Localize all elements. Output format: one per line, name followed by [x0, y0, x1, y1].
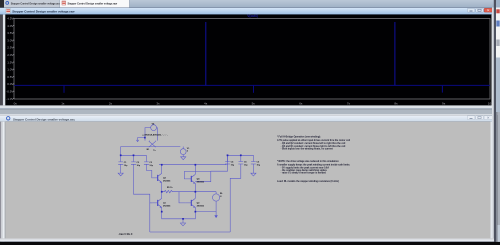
- svg-text:1.0V: 1.0V: [7, 68, 13, 72]
- waveform window bottom border: [0, 105, 494, 108]
- wire rail up to right cap rail: [228, 155, 254, 164]
- motor load RL (circle): [213, 194, 220, 201]
- client area left border lines: [0, 122, 1, 242]
- svg-text:7s: 7s: [347, 101, 351, 105]
- wire left capacitor rail: [121, 154, 147, 156]
- voltage source V1 stub from main net: [182, 147, 184, 149]
- max button: [476, 8, 484, 12]
- ground (main, center bottom): [180, 223, 185, 226]
- capacitor C4 (right group): [225, 155, 230, 164]
- svg-text:8s: 8s: [394, 101, 398, 105]
- wire C5 down around to bottom rail right side: [230, 166, 241, 232]
- Q2 emitter arrow: [193, 206, 195, 208]
- svg-text:Stepper Control Design smaller: Stepper Control Design smaller voltage.a…: [13, 117, 75, 121]
- component labels (tiny): [119, 124, 261, 236]
- tab bar background: [0, 0, 500, 8]
- svg-text:2N3055: 2N3055: [163, 205, 171, 207]
- wire emitter node to motor node: [175, 191, 216, 193]
- min button: [467, 8, 475, 12]
- close button: [484, 8, 492, 12]
- wire C2 to lower-left run to BL base / bottom rail: [134, 166, 150, 232]
- tab 1 icon: [6, 2, 9, 5]
- behavioral source A1 body (crossed box): [149, 141, 156, 147]
- svg-text:4.0V: 4.0V: [7, 24, 13, 28]
- ground under C1: [118, 173, 123, 176]
- wire Q4 emitter down to node: [194, 183, 196, 191]
- wire V5 right lead down to modulator: [156, 128, 159, 141]
- window right border: [492, 8, 495, 110]
- title bar (inactive): [0, 115, 494, 122]
- wire main horizontal net N001: [121, 146, 181, 148]
- behavioral source A1 (X symbol) pin stubs: [150, 140, 156, 143]
- wire Q4 base feedback loop: [184, 171, 210, 181]
- wire motor top to node: [215, 192, 217, 194]
- trace baseline V(out4): [14, 84, 490, 86]
- svg-text:4s: 4s: [204, 101, 208, 105]
- trace dip at 5s: [253, 85, 255, 92]
- tab 1 (schematic, inactive): [4, 0, 60, 8]
- svg-text:0.0V: 0.0V: [7, 82, 13, 86]
- schematic window bottom border: [0, 238, 494, 239]
- svg-text:9s: 9s: [442, 101, 446, 105]
- wire cross-couple down to Q2 base: [179, 192, 186, 203]
- svg-text:.tran 0 10s 0: .tran 0 10s 0: [119, 233, 133, 236]
- capacitor C2: [131, 155, 136, 166]
- svg-text:2N3055: 2N3055: [197, 205, 205, 207]
- svg-text:-0.5V: -0.5V: [6, 89, 13, 93]
- schematic client area: [0, 122, 494, 242]
- trace spike at 4s: [205, 22, 207, 85]
- svg-text:2s: 2s: [109, 101, 113, 105]
- svg-text:3s: 3s: [156, 101, 160, 105]
- junction nodes (dots): [120, 137, 242, 220]
- tab 2 (waveform, active): [60, 0, 130, 8]
- wire C3 to Q3 base: [146, 166, 152, 178]
- svg-text:2.5V: 2.5V: [7, 46, 13, 50]
- wire Q3 emitter down to node: [161, 182, 163, 191]
- motor bottom arrow: [214, 215, 217, 218]
- wire bottom return rail: [150, 231, 230, 233]
- y axis labels: [6, 16, 13, 100]
- transistor base bars (bold): [158, 175, 192, 206]
- svg-text:-1.0V: -1.0V: [6, 97, 13, 101]
- svg-text:0.5V: 0.5V: [7, 75, 13, 79]
- net flag arrow (input net): [136, 138, 145, 142]
- svg-text:2.0V: 2.0V: [7, 53, 13, 57]
- wire Q1 collector up to emitter node: [161, 192, 163, 199]
- plot client area (black): [3, 15, 492, 106]
- dark screen edge left of tabs: [0, 0, 4, 8]
- capacitor C6 (right group): [251, 155, 256, 166]
- wire Q4 collector to rail: [194, 165, 196, 175]
- ground under C6: [251, 166, 256, 176]
- svg-text:1s: 1s: [61, 101, 65, 105]
- title bar icon: [7, 117, 10, 120]
- capacitor C5 (right group): [238, 155, 243, 166]
- min/max/close buttons (inactive): [467, 116, 475, 120]
- ground under V1: [181, 155, 186, 160]
- wire V5 left lead down to modulator: [145, 128, 151, 141]
- svg-text:Stepper Control Design smaller: Stepper Control Design smaller voltage.r…: [12, 10, 75, 14]
- svg-text:Stepper Control Design smaller: Stepper Control Design smaller voltage.a…: [11, 2, 61, 5]
- svg-text:5s: 5s: [252, 101, 256, 105]
- wire Q2 emitter to motor bottom: [195, 211, 216, 213]
- wire stub to Q1 base: [150, 202, 152, 204]
- Q1 emitter arrow: [160, 206, 162, 208]
- title bar (active): [0, 8, 494, 15]
- svg-text:Stepper Control Design smaller: Stepper Control Design smaller voltage.r…: [68, 2, 118, 5]
- tab 2 icon: [62, 1, 66, 5]
- wire motor bottom lead: [215, 201, 217, 215]
- trace dip at 1s: [63, 85, 65, 92]
- Q3 emitter arrow: [160, 181, 162, 183]
- transistor Q1 (bottom-left NPN): [152, 198, 162, 207]
- trace dip at 9s: [441, 85, 443, 92]
- client area right border lines: [491, 122, 493, 242]
- Q4 emitter arrow: [193, 182, 195, 184]
- title bar icon: [6, 9, 10, 13]
- y tick dashes: [13, 18, 14, 99]
- svg-text:V(out4): V(out4): [247, 14, 257, 18]
- x axis labels: [14, 101, 494, 105]
- wire Q3 collector to rail: [161, 165, 163, 174]
- svg-text:3.0V: 3.0V: [7, 38, 13, 42]
- wire Q2 emitter down: [194, 207, 196, 211]
- wire left drop to cap rail: [120, 147, 122, 156]
- wire H-bridge top rail: [159, 164, 227, 166]
- window left border: [0, 8, 1, 110]
- resistor R5 (zigzag between emitter nodes): [162, 190, 175, 192]
- transistor Q4 (top-right NPN): [186, 174, 196, 183]
- svg-text:R5 1k: R5 1k: [167, 187, 173, 189]
- svg-text:2N3055: 2N3055: [197, 181, 205, 183]
- transistor Q3 (top-left NPN): [152, 173, 162, 182]
- svg-text:0s: 0s: [14, 101, 18, 105]
- capacitor C1: [118, 155, 123, 173]
- window top border: [0, 113, 494, 116]
- svg-text:3.5V: 3.5V: [7, 31, 13, 35]
- wire inner emitter rail: [162, 212, 196, 219]
- wire ground stem: [182, 219, 184, 223]
- svg-text:6s: 6s: [299, 101, 303, 105]
- svg-text:1.5V: 1.5V: [7, 60, 13, 64]
- wire Q1 emitter down: [161, 207, 163, 211]
- wire Q2 collector up to node: [194, 192, 196, 199]
- voltage source V5 (top drive pulse source): [151, 125, 157, 131]
- trace spike at 8s: [394, 22, 396, 85]
- svg-text:2N3055: 2N3055: [163, 180, 171, 182]
- transistor Q2 (bottom-right NPN): [186, 198, 196, 207]
- wire C4 to TR loop: [211, 165, 228, 172]
- plot frame: [14, 19, 490, 100]
- svg-text:4.5V: 4.5V: [7, 16, 13, 20]
- capacitor C3: [144, 155, 149, 166]
- voltage source V1: [180, 149, 186, 155]
